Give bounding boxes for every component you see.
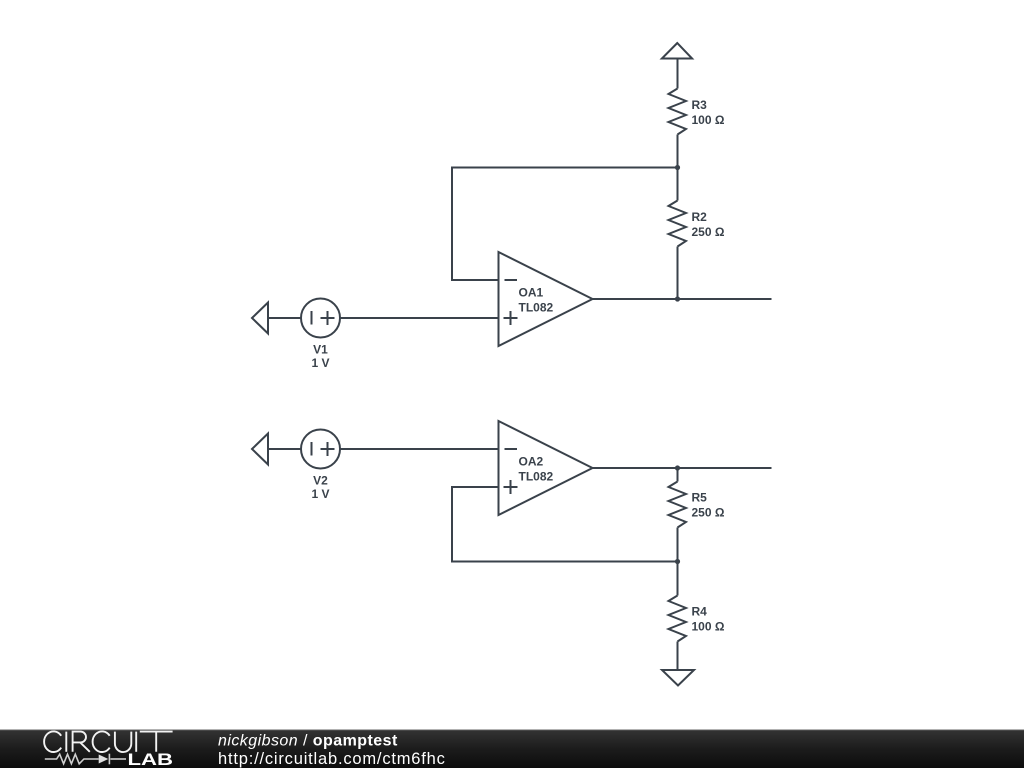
svg-text:250 Ω: 250 Ω <box>692 506 725 520</box>
svg-text:R2: R2 <box>692 210 708 224</box>
svg-text:100 Ω: 100 Ω <box>692 113 725 127</box>
svg-text:100 Ω: 100 Ω <box>692 620 725 634</box>
svg-text:1 V: 1 V <box>311 356 329 370</box>
svg-text:OA2: OA2 <box>519 455 544 469</box>
svg-text:V1: V1 <box>313 343 328 357</box>
svg-text:LAB: LAB <box>128 751 174 768</box>
svg-text:R3: R3 <box>692 98 708 112</box>
svg-text:R5: R5 <box>692 491 708 505</box>
svg-text:OA1: OA1 <box>519 286 544 300</box>
svg-text:TL082: TL082 <box>519 470 554 484</box>
svg-text:TL082: TL082 <box>519 301 554 315</box>
svg-text:1 V: 1 V <box>311 487 329 501</box>
svg-text:nickgibson / opamptest: nickgibson / opamptest <box>218 733 398 750</box>
svg-text:250 Ω: 250 Ω <box>692 225 725 239</box>
svg-text:http://circuitlab.com/ctm6fhc: http://circuitlab.com/ctm6fhc <box>218 750 446 768</box>
svg-text:V2: V2 <box>313 474 328 488</box>
svg-text:R4: R4 <box>692 605 708 619</box>
